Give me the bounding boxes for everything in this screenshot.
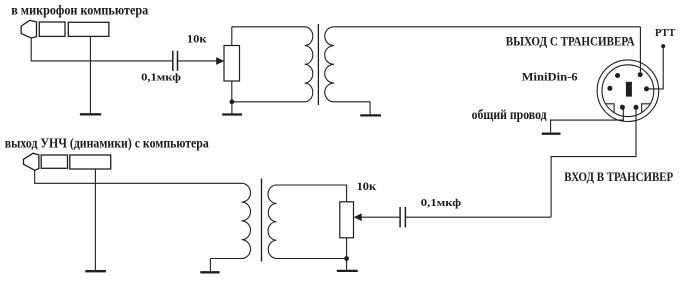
wire J2 sleeve to ground — [94, 169, 96, 270]
wire common to ground — [550, 120, 552, 132]
transformer T1 core — [317, 24, 319, 105]
wire T2 primary bottom to ground — [209, 259, 211, 272]
transformer T1 secondary winding — [325, 27, 641, 102]
capacitor C1 — [173, 51, 178, 71]
svg-text:в микрофон компьютера: в микрофон компьютера — [11, 4, 148, 19]
MiniDin key slot — [626, 82, 632, 97]
MiniDin pin gnd bottom-left — [620, 105, 625, 110]
svg-text:ВЫХОД С ТРАНСИВЕРА: ВЫХОД С ТРАНСИВЕРА — [506, 34, 636, 48]
wire node A to ground — [231, 102, 233, 114]
node B junction dot — [344, 256, 349, 261]
node A junction dot — [230, 99, 235, 104]
ground (T2 primary) — [200, 271, 219, 273]
jack J1 ring — [39, 22, 65, 36]
svg-text:ВХОД В ТРАНСИВЕР: ВХОД В ТРАНСИВЕР — [564, 170, 673, 184]
svg-text:общий провод: общий провод — [472, 107, 547, 122]
arrow into R2 wiper — [354, 213, 362, 221]
transformer T2 secondary winding — [268, 185, 347, 259]
wire T1 secondary to MiniDin pin 5 — [639, 27, 641, 73]
MiniDin pin 5 top-right — [638, 72, 643, 77]
capacitor C2 — [400, 207, 405, 227]
wire PTT to MiniDin pin 4 — [649, 48, 663, 89]
jack J2 ring — [41, 155, 67, 168]
MiniDin notch right — [642, 104, 651, 113]
svg-text:PTT: PTT — [655, 28, 676, 39]
wire R2 wiper to capacitor C2 — [361, 216, 399, 218]
svg-text:10к: 10к — [187, 31, 207, 45]
arrow into R1 wiper — [216, 57, 224, 65]
ground (T1 secondary) — [360, 114, 381, 116]
wire C2 to transceiver input — [405, 216, 551, 218]
wire J1 sleeve to ground — [89, 36, 91, 113]
wire R1 top to transformer T1 primary — [231, 27, 233, 46]
node PTT dot — [661, 44, 665, 48]
ground (J1 sleeve) — [80, 113, 101, 115]
MiniDin notch left — [605, 104, 614, 113]
transformer T1 primary winding — [232, 27, 313, 102]
jack J1 sleeve — [68, 22, 109, 36]
MiniDin pin 4 mid-right — [644, 86, 649, 91]
wire node B to ground — [346, 259, 348, 270]
jack J2 sleeve — [70, 155, 111, 169]
ground (common) — [542, 133, 561, 135]
svg-text:выход УНЧ (динамики) с компьют: выход УНЧ (динамики) с компьютера — [5, 136, 209, 151]
wire R1 bottom to node A — [231, 81, 233, 102]
svg-text:10к: 10к — [357, 179, 377, 193]
potentiometer R1 — [224, 46, 240, 82]
ground (below R2) — [337, 270, 358, 272]
ground (J2 sleeve) — [85, 270, 106, 272]
connector X1 MiniDin-6 inner shield — [602, 65, 654, 117]
wire MiniDin pin 1 to transceiver input — [551, 110, 636, 218]
svg-text:0,1мкф: 0,1мкф — [141, 73, 181, 84]
transformer T2 primary winding — [210, 183, 250, 258]
wire J2 tip to transformer T2 primary — [35, 170, 242, 183]
wire J1 tip to capacitor C1 — [31, 38, 172, 61]
wire T1 secondary bottom to ground — [369, 102, 371, 115]
ground (below R1) — [222, 113, 242, 115]
MiniDin pin 1 bottom-right — [634, 105, 639, 110]
wire common to MiniDin gnd pin — [550, 110, 624, 121]
jack J2 tip (computer audio out) — [24, 153, 39, 170]
wire C1 to potentiometer R1 wiper — [178, 60, 218, 62]
MiniDin pin mid-left — [607, 86, 612, 91]
connector X1 MiniDin-6 outer shell — [597, 60, 659, 122]
potentiometer R2 — [340, 202, 354, 238]
MiniDin pin top-left — [615, 73, 620, 78]
jack J1 tip (computer mic input) — [21, 20, 36, 38]
svg-text:MiniDin-6: MiniDin-6 — [522, 72, 578, 84]
wire R2 bottom to node B — [346, 238, 348, 259]
transformer T2 core — [261, 179, 263, 262]
svg-text:0,1мкф: 0,1мкф — [421, 198, 461, 209]
